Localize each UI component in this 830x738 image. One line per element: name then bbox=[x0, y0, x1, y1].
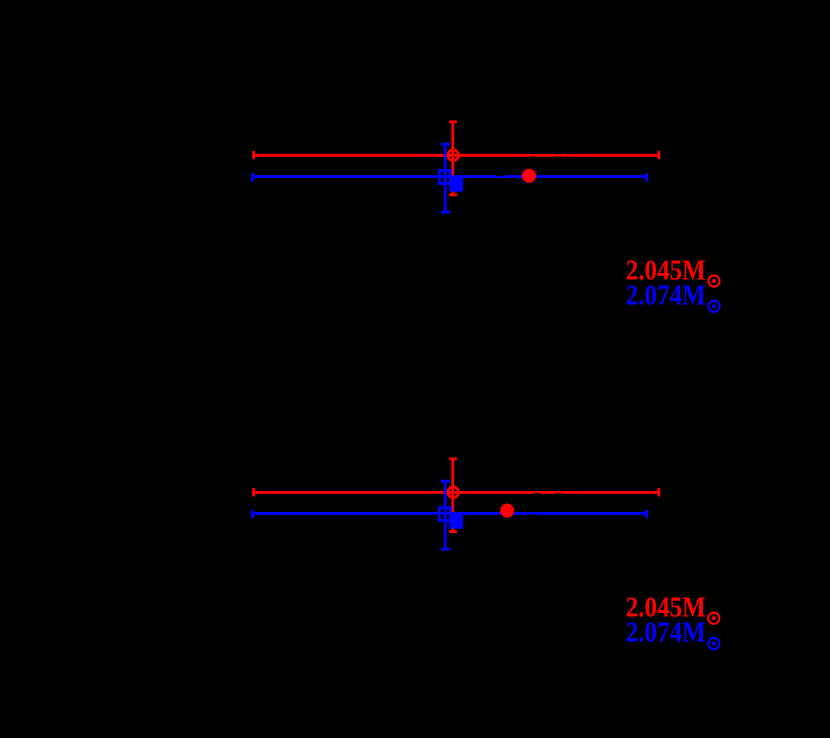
blue filled square marker (bottom panel) bbox=[449, 515, 463, 529]
black curve notches over top red bar bbox=[531, 156, 561, 157]
red solar symbol (top panel) bbox=[708, 275, 719, 286]
blue filled square marker (top panel) bbox=[449, 178, 463, 192]
blue vertical error bar (bottom panel) bbox=[441, 481, 450, 549]
blue horizontal error bar (bottom panel) bbox=[253, 510, 647, 518]
blue horizontal error bar (top panel) bbox=[253, 173, 647, 181]
black curve notches over bottom red bar bbox=[534, 493, 563, 494]
blue open square marker (bottom panel) bbox=[439, 508, 450, 521]
svg-text:2.074M: 2.074M bbox=[626, 617, 706, 649]
red filled circle marker (bottom panel) bbox=[500, 504, 514, 518]
svg-text:2.074M: 2.074M bbox=[626, 280, 706, 312]
blue solar symbol (top panel) bbox=[708, 301, 719, 312]
red horizontal error bar (top panel) bbox=[254, 151, 659, 159]
black curve notch over top blue bar bbox=[497, 175, 505, 176]
red filled circle marker (top panel) bbox=[522, 169, 536, 183]
black curve notch under bottom blue bar bbox=[527, 514, 534, 515]
blue open square marker (top panel) bbox=[439, 171, 450, 184]
red solar symbol (bottom panel) bbox=[708, 613, 719, 624]
red vertical error bar (top panel) bbox=[449, 122, 457, 195]
red open circle marker (bottom panel) bbox=[448, 487, 459, 498]
blue vertical error bar (top panel) bbox=[441, 144, 450, 212]
red vertical error bar (bottom panel) bbox=[449, 459, 457, 532]
red horizontal error bar (bottom panel) bbox=[254, 488, 659, 496]
blue solar symbol (bottom panel) bbox=[708, 638, 719, 649]
red open circle marker (top panel) bbox=[448, 150, 459, 161]
